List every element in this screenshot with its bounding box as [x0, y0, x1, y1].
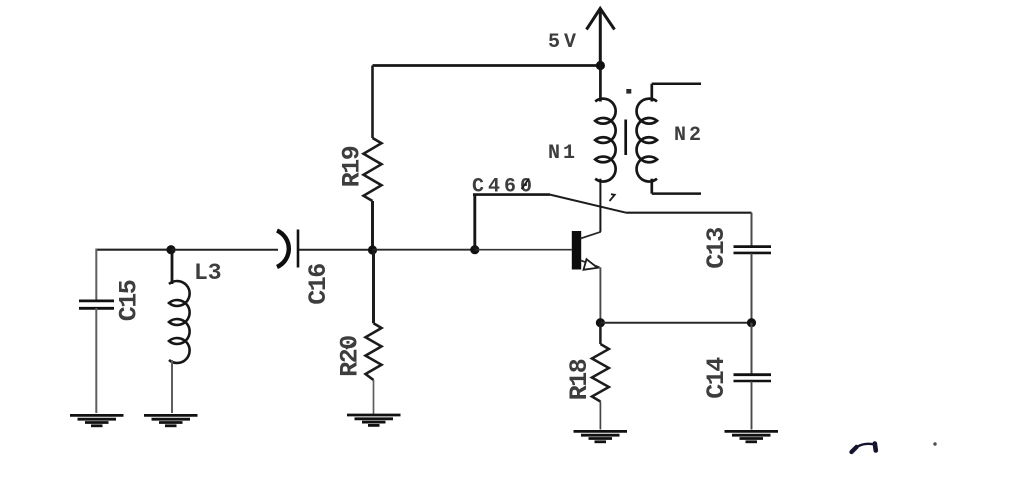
svg-text:C14: C14 [702, 357, 731, 399]
wire collector tick mark [610, 194, 615, 201]
resistor R18 [592, 323, 609, 430]
capacitor C13 [734, 247, 772, 323]
inductor N1 primary [595, 66, 615, 232]
inductor L3 [169, 250, 190, 413]
ground under C14 [725, 431, 779, 441]
wire input horizontal left segment [96, 249, 172, 251]
svg-text:5V: 5V [548, 31, 580, 54]
svg-text:C13: C13 [702, 228, 731, 269]
resistor R19 [364, 66, 382, 251]
svg-text:L3: L3 [194, 260, 222, 286]
power 5V supply arrow [587, 9, 615, 66]
svg-text:R20: R20 [336, 336, 365, 377]
watermark dot [933, 442, 936, 445]
transformer core [624, 120, 627, 156]
wire C460 underline leader [473, 193, 550, 196]
wire diagonal leader to C13 rail [550, 195, 626, 213]
svg-text:N2: N2 [674, 124, 704, 147]
watermark letter fragment [852, 444, 876, 453]
ground under L3 [144, 415, 198, 425]
node base junction [470, 245, 479, 254]
node emitter junction [596, 318, 605, 327]
transformer phase dot [626, 89, 631, 94]
label R20 [336, 336, 365, 377]
capacitor C15 [79, 249, 114, 413]
node 5V rail junction [596, 61, 605, 70]
ground under C15 [70, 415, 124, 425]
wire base node vertical riser [473, 195, 476, 250]
transistor Q1 [572, 231, 601, 270]
svg-text:C15: C15 [115, 280, 144, 321]
wire base node to transistor [475, 249, 572, 251]
svg-text:N1: N1 [548, 142, 578, 165]
ground under R20 [347, 415, 401, 425]
node bias divider junction [368, 245, 377, 254]
wire collector node to C13 top [626, 213, 752, 246]
svg-text:R18: R18 [565, 359, 594, 400]
wire emitter vertical [599, 267, 601, 322]
svg-text:R19: R19 [338, 146, 367, 187]
capacitor C16 [277, 230, 298, 268]
node C13 C14 junction [747, 318, 756, 327]
resistor R20 [366, 250, 382, 414]
svg-text:C16: C16 [304, 264, 333, 305]
node input L3 junction [166, 245, 175, 254]
wire divider node to base node [373, 249, 476, 251]
wire emitter node to C13/C14 node [600, 322, 751, 324]
ground under R18 [574, 431, 628, 441]
wire from L3 node to C16 [171, 249, 278, 251]
wire C16 to R19/R20 node [299, 249, 373, 251]
wire top rail from R19 to 5V node [373, 64, 602, 67]
inductor N2 secondary [637, 84, 701, 194]
label C460 transistor designator [472, 176, 536, 199]
capacitor C14 [734, 323, 772, 430]
